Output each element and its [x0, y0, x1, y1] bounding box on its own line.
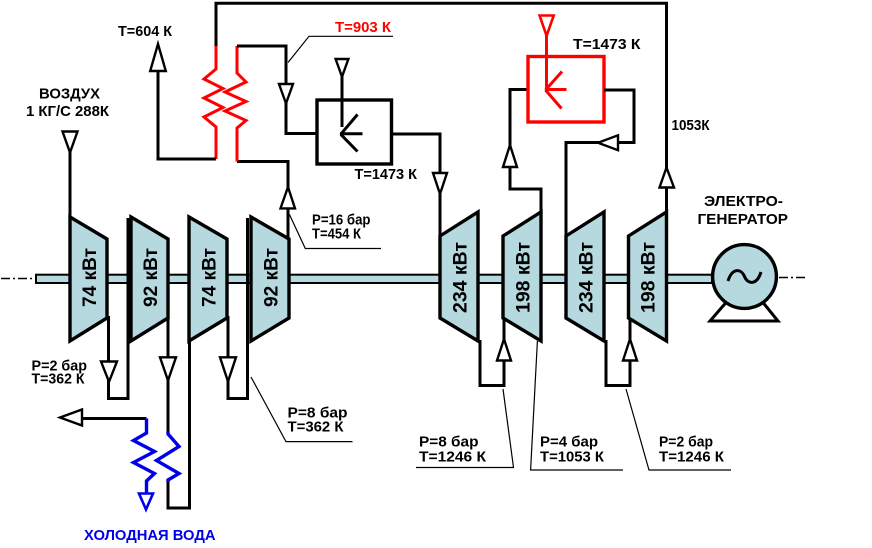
- svg-text:1053К: 1053К: [672, 117, 711, 134]
- svg-text:Т=1473 К: Т=1473 К: [573, 36, 641, 53]
- water cooler line (blue zigzag left): [134, 419, 155, 496]
- arrow: T2 exhaust to CC2 (up): [503, 145, 517, 167]
- arrow: T4 exhaust (up): [660, 168, 675, 188]
- arrow: air inlet (down): [63, 132, 78, 153]
- svg-text:Т=1246 К: Т=1246 К: [419, 449, 487, 466]
- arrow: cold water inlet (blue down triangle): [139, 494, 153, 510]
- svg-text:Т=1473 К: Т=1473 К: [355, 166, 418, 183]
- svg-text:Т=362 К: Т=362 К: [288, 419, 345, 436]
- arrow: fuel inlet CC1 (down triangle): [336, 59, 349, 77]
- arrow: exhaust outlet (up): [150, 44, 166, 71]
- svg-text:Т=362 К: Т=362 К: [32, 371, 86, 388]
- leader: T=903 K label: [288, 36, 393, 62]
- turbine T1: [440, 212, 478, 341]
- wire: C4 outlet up to regenerator cold side: [237, 162, 288, 241]
- svg-text:ХОЛОДНАЯ ВОДА: ХОЛОДНАЯ ВОДА: [84, 527, 216, 544]
- combustor CC2 box (red): [528, 57, 604, 123]
- arrow: air to combustor 1 (down): [279, 84, 293, 104]
- leader: P=4 bar T=1053 K label: [531, 341, 623, 470]
- shaft: [36, 275, 712, 283]
- svg-text:ГЕНЕРАТОР: ГЕНЕРАТОР: [698, 211, 789, 228]
- svg-text:198 кВт: 198 кВт: [638, 242, 660, 313]
- wire: T3 exhaust to T4 inlet: [606, 319, 630, 386]
- arrow: cooling water out (left): [60, 410, 82, 426]
- wire: regenerator exhaust to stack: [158, 70, 216, 159]
- arrow: intercooler 1 flow (down): [101, 362, 117, 382]
- CC2 internal nozzle arrow (red): [545, 72, 567, 109]
- svg-text:Т=903 К: Т=903 К: [335, 19, 392, 36]
- arrow: intercooler 2 flow (down): [160, 357, 176, 380]
- svg-text:74 кВт: 74 кВт: [199, 248, 221, 307]
- wire: T1 exhaust to T2 inlet: [480, 319, 504, 386]
- shaft centerline left (dash-dot): [1, 278, 37, 280]
- svg-text:Т=1053 К: Т=1053 К: [540, 449, 605, 466]
- wire: CC1 outlet to turbine T1: [392, 134, 441, 238]
- water cooler outlet wire and arrow (left): [80, 417, 147, 420]
- generator G1: [713, 245, 777, 309]
- compressor C1: [70, 217, 107, 341]
- arrow: C4 outlet flow (up): [281, 187, 296, 208]
- svg-text:234 кВт: 234 кВт: [576, 242, 598, 313]
- wire: CC2 outlet down and left to T3: [566, 90, 634, 238]
- arrow: intercooler 3 flow (down): [220, 357, 236, 381]
- wire: C3 outlet to intercooler 3: [228, 218, 248, 399]
- leader: P=16 bar label: [289, 214, 381, 248]
- wire: regenerator cold outlet to combustor 1: [237, 46, 317, 134]
- svg-text:74 кВт: 74 кВт: [79, 248, 101, 307]
- compressor C4: [251, 217, 289, 341]
- wire: C1 outlet to intercooler 1: [109, 218, 129, 399]
- combustor CC1 box: [317, 100, 392, 164]
- svg-text:Т=604 К: Т=604 К: [118, 23, 173, 40]
- arrow: fuel inlet CC2 (red down triangle): [540, 16, 554, 36]
- svg-text:ВОЗДУХ: ВОЗДУХ: [39, 86, 100, 103]
- shaft centerline right (dash-dot): [779, 277, 806, 279]
- svg-text:92 кВт: 92 кВт: [140, 248, 162, 307]
- turbine T2: [503, 212, 541, 341]
- arrow: gas to T3 (left): [598, 135, 618, 150]
- svg-text:Т=454 К: Т=454 К: [312, 226, 362, 243]
- regenerator cold line (right, red zigzag): [225, 46, 246, 162]
- generator stand: [710, 303, 778, 321]
- arrow: gas to T1 (down): [433, 173, 447, 194]
- svg-text:ЭЛЕКТРО-: ЭЛЕКТРО-: [704, 193, 783, 210]
- air pipe cooler section (blue zigzag right): [157, 431, 180, 482]
- fuel line into CC1: [341, 75, 344, 127]
- fuel line into CC2 (red): [545, 35, 548, 88]
- wire: T4 exhaust up and across to regenerator hot side: [216, 3, 667, 213]
- compressor C3: [189, 217, 227, 341]
- wire: C2 outlet through water cooler to C3: [167, 316, 170, 432]
- arrow: T1-T2 flow (up): [497, 339, 511, 361]
- wire: air inlet to compressor C1: [69, 151, 72, 220]
- leader: P=8 bar T=1246 K label: [416, 389, 514, 468]
- compressor C2: [131, 217, 168, 341]
- arrow: T3-T4 flow (up): [623, 339, 637, 361]
- svg-text:92 кВт: 92 кВт: [261, 248, 283, 307]
- turbine T3: [566, 212, 604, 341]
- leader: P=8 bar T=362 K label: [251, 377, 353, 442]
- generator sine symbol: [728, 271, 761, 283]
- turbine T4: [629, 212, 667, 341]
- svg-text:234 кВт: 234 кВт: [450, 242, 472, 313]
- svg-text:Т=1246 К: Т=1246 К: [659, 449, 725, 466]
- CC1 internal nozzle arrow: [340, 115, 363, 152]
- svg-text:1 КГ/С 288К: 1 КГ/С 288К: [26, 103, 110, 120]
- svg-text:198 кВт: 198 кВт: [513, 242, 535, 313]
- wire: T2 exhaust up to combustor 2: [510, 90, 541, 215]
- leader: P=2 bar T=1246 K label: [626, 389, 731, 470]
- regenerator hot line (left, red zigzag): [204, 44, 223, 159]
